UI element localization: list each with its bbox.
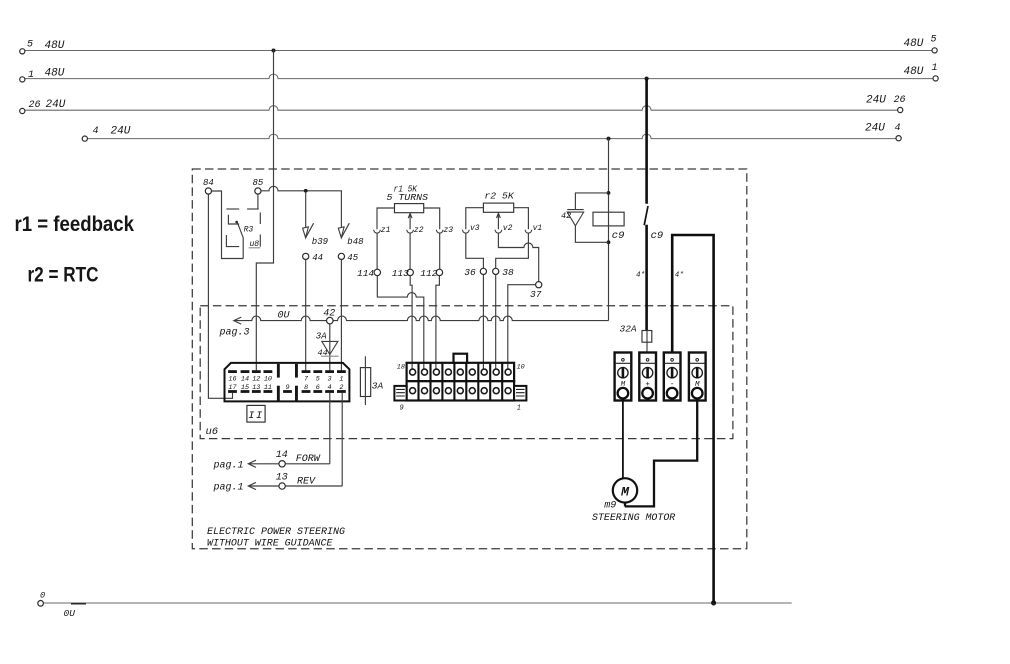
switch b48	[338, 227, 344, 238]
relay u8 bracket bottom-right	[259, 235, 261, 247]
pin 1	[337, 370, 346, 373]
wire z3 to 112	[439, 233, 441, 269]
pin 7	[302, 370, 311, 373]
svg-text:0U: 0U	[64, 608, 76, 619]
svg-text:36: 36	[464, 267, 476, 278]
relay contact R3 inner right bracket	[259, 212, 261, 224]
node junction diode top	[607, 191, 611, 195]
terminal 4 right	[896, 136, 901, 141]
svg-text:b48: b48	[347, 237, 364, 247]
svg-text:STEERING MOTOR: STEERING MOTOR	[592, 513, 675, 524]
terminal 5 left	[20, 49, 25, 54]
svg-text:32A: 32A	[620, 324, 637, 335]
svg-text:5 TURNS: 5 TURNS	[387, 193, 429, 203]
svg-text:R3: R3	[244, 226, 254, 235]
wire 84 down to pin 17	[208, 194, 232, 398]
connector II outline	[225, 363, 350, 402]
wire 37 to connector cell9	[508, 285, 536, 370]
connector X pin circles top	[410, 369, 512, 375]
svg-text:10: 10	[264, 375, 272, 383]
svg-text:c9: c9	[651, 230, 664, 242]
terminal 84	[205, 188, 211, 194]
pin 15	[241, 390, 250, 393]
wire diode branch bottom	[575, 226, 608, 243]
svg-text:M: M	[620, 485, 630, 500]
resistor r1 body	[395, 204, 424, 213]
terminal 45	[338, 253, 344, 259]
svg-text:v1: v1	[533, 224, 543, 233]
pin z2 hook	[407, 230, 414, 233]
diode 42 cathode bar	[567, 209, 584, 211]
svg-text:42: 42	[561, 211, 571, 221]
relay contact R3 bracket top-right	[247, 208, 259, 210]
wire pin 2 to REV	[341, 393, 343, 486]
pin 9	[283, 390, 292, 393]
wire v2 to 37 (hops v1 wire)	[498, 233, 538, 282]
svg-text:WITHOUT WIRE GUIDANCE: WITHOUT WIRE GUIDANCE	[207, 538, 333, 549]
terminal 85	[255, 188, 261, 194]
connector II key top a	[277, 364, 280, 378]
svg-text:24U: 24U	[865, 123, 885, 135]
terminal 38	[493, 268, 499, 274]
svg-text:u6: u6	[206, 426, 219, 438]
svg-text:5: 5	[27, 40, 33, 51]
terminal 112	[436, 269, 442, 275]
resistor r2 wiper arrow	[497, 213, 501, 229]
svg-text:48U: 48U	[904, 66, 924, 78]
svg-text:44: 44	[312, 253, 323, 263]
svg-text:5: 5	[931, 35, 937, 46]
wire 84 to contact arm	[212, 191, 244, 259]
terminal 1 right	[933, 76, 938, 81]
svg-text:r2 = RTC: r2 = RTC	[28, 264, 99, 287]
relay u8 bracket bottom-left	[226, 235, 239, 247]
wire 45 down to pin 1	[340, 260, 342, 372]
svg-text:r2 5K: r2 5K	[484, 192, 514, 202]
pin 13	[252, 390, 261, 393]
svg-text:0: 0	[40, 591, 45, 601]
svg-text:m9: m9	[604, 501, 616, 512]
inner dashed enclosure u6	[200, 306, 733, 439]
connector X pin circles bottom	[410, 388, 512, 394]
svg-text:48U: 48U	[904, 38, 924, 50]
wire 36 to connector cell7	[482, 275, 484, 370]
svg-text:3A: 3A	[316, 332, 327, 342]
svg-text:42: 42	[323, 309, 335, 320]
wire bus 24V line 26	[25, 106, 898, 111]
svg-text:z3: z3	[444, 226, 454, 235]
wire diode branch top	[575, 193, 608, 210]
svg-text:16: 16	[228, 375, 236, 383]
relay R3 moving arm	[237, 222, 244, 259]
wire bus 48V line 5	[25, 50, 932, 52]
pin 5	[313, 370, 322, 373]
diode 42 body	[567, 212, 584, 226]
svg-text:114: 114	[357, 268, 374, 279]
svg-text:pag.1: pag.1	[213, 460, 244, 471]
svg-text:1: 1	[932, 63, 938, 74]
contactor block 1 (M)	[615, 353, 632, 401]
connector X left tab	[394, 386, 406, 401]
contact c9 lower thick	[645, 225, 648, 331]
pin 11	[264, 390, 273, 393]
svg-text:84: 84	[203, 178, 214, 188]
pin 16	[228, 370, 237, 373]
connector X dividers bottom	[419, 381, 503, 400]
relay contact R3 inner left bracket	[228, 215, 239, 224]
switch b39	[305, 193, 307, 228]
wire r2 right to v1	[514, 208, 529, 230]
node junction bus5/vertical	[272, 49, 276, 53]
terminal 1 left	[20, 77, 25, 82]
wire 42 down through 3A fuse triangle to pin 3	[329, 324, 331, 371]
pin 4	[325, 390, 334, 393]
resistor r1 wiper arrow	[408, 213, 412, 229]
wire block4 to motor	[625, 401, 697, 507]
svg-text:14: 14	[241, 375, 249, 383]
relay contact R3 bracket top-left	[226, 208, 239, 210]
pin 10	[264, 370, 273, 373]
connector X notch	[454, 354, 468, 363]
node junction diode bottom	[607, 240, 611, 244]
wire z1 to 114	[376, 233, 378, 269]
svg-text:b39: b39	[312, 237, 329, 247]
svg-text:pag.1: pag.1	[213, 483, 244, 494]
wire thick U to steering motor bus	[672, 235, 713, 603]
connector X dividers top	[419, 363, 503, 381]
svg-text:r1 = feedback: r1 = feedback	[15, 213, 135, 236]
contact c9 blade	[644, 206, 648, 225]
terminal 114	[374, 269, 380, 275]
pin 14	[241, 370, 250, 373]
svg-text:24U: 24U	[111, 126, 131, 138]
svg-text:85: 85	[253, 178, 264, 188]
connector II key bottom a	[277, 386, 280, 401]
arrow 0V to pag.3	[234, 317, 241, 324]
wire emphasized segment on 0V bus	[71, 603, 86, 605]
connector X top row	[407, 363, 514, 381]
terminal 44	[303, 253, 309, 259]
node junction thick leg / 0V bus	[711, 600, 716, 605]
wire v1 to 38	[496, 233, 529, 268]
wire 113 to connector cell1	[410, 276, 412, 370]
pin v2 hook	[495, 230, 502, 233]
wire 85 feed to b39/b48 (hops main vertical)	[261, 186, 341, 227]
svg-text:1: 1	[28, 70, 34, 81]
svg-text:18: 18	[397, 363, 405, 371]
wire bottom 0V bus	[44, 602, 792, 604]
svg-text:10: 10	[517, 363, 525, 371]
svg-text:pag.3: pag.3	[219, 328, 250, 339]
svg-text:c9: c9	[612, 230, 625, 242]
terminal 26 left	[20, 108, 25, 113]
svg-text:1: 1	[339, 375, 343, 383]
node junction bus4/coil feed	[607, 137, 611, 141]
resistor r2 body	[483, 203, 513, 212]
wire 38 to connector cell8	[495, 275, 497, 370]
svg-text:24U: 24U	[866, 95, 886, 107]
svg-text:13: 13	[276, 472, 288, 483]
svg-text:24U: 24U	[46, 99, 66, 111]
pin 2	[337, 390, 346, 393]
wire r1 right to z3	[424, 208, 440, 229]
wire fuse to contactor block 2	[646, 331, 648, 353]
svg-text:0U: 0U	[278, 311, 291, 322]
svg-text:5: 5	[316, 375, 320, 383]
connector X bottom row	[407, 381, 514, 400]
connector II key bottom b	[295, 386, 298, 401]
wire bus 24V line 4	[88, 134, 897, 139]
wire r2 left to v3	[466, 208, 484, 230]
svg-text:48U: 48U	[45, 40, 65, 52]
wire 0V rail (with hops)	[234, 316, 609, 321]
contactor block 3 (-)	[664, 353, 681, 401]
svg-text:45: 45	[347, 253, 358, 263]
relay coil c9 body	[593, 212, 624, 226]
terminal 0 bottom left	[38, 601, 44, 607]
wire block1 to motor	[622, 401, 624, 479]
svg-text:14: 14	[276, 450, 288, 461]
terminal 5 right	[932, 48, 937, 53]
svg-text:ELECTRIC POWER STEERING: ELECTRIC POWER STEERING	[207, 527, 345, 538]
pin 6	[313, 390, 322, 393]
svg-text:26: 26	[894, 95, 906, 106]
wire 112 to connector cell3	[436, 276, 440, 370]
fuse 32A body	[642, 331, 652, 343]
wire 114 to connector cell2 (hops 113 wire)	[377, 276, 424, 370]
svg-text:4*: 4*	[675, 272, 685, 280]
svg-text:II: II	[248, 410, 264, 422]
label II box	[247, 405, 265, 422]
wire r1 left to z1	[377, 208, 395, 229]
wire pin 4 to FORW	[329, 393, 331, 464]
svg-text:112: 112	[420, 268, 437, 279]
svg-text:26: 26	[29, 100, 41, 111]
svg-text:3: 3	[328, 375, 332, 383]
pin v1 hook	[525, 230, 532, 233]
pin 17	[228, 390, 237, 393]
svg-text:12: 12	[252, 375, 260, 383]
pin 12	[252, 370, 261, 373]
terminal 37	[536, 282, 542, 288]
svg-text:37: 37	[530, 289, 542, 300]
svg-text:1: 1	[517, 404, 521, 412]
pin z3 hook	[436, 230, 443, 233]
svg-text:z1: z1	[381, 226, 391, 235]
svg-text:v3: v3	[470, 224, 480, 233]
fuse 3A body (between connectors)	[360, 368, 370, 397]
pin z1 hook	[374, 230, 381, 233]
outer dashed enclosure	[192, 169, 747, 549]
terminal 4 left	[82, 136, 87, 141]
svg-text:3A: 3A	[372, 380, 384, 391]
wire z2 to 113	[409, 233, 411, 269]
motor m9	[613, 478, 637, 502]
svg-text:48U: 48U	[45, 68, 65, 80]
wire 44 down to pin 7	[305, 260, 307, 372]
svg-text:4: 4	[93, 126, 99, 137]
terminal 36	[480, 268, 486, 274]
terminal 42 on 0V rail	[327, 317, 334, 324]
pin v3 hook	[463, 230, 470, 233]
svg-text:4: 4	[895, 123, 901, 134]
terminal 113	[407, 269, 413, 275]
contact c9 thick feed from 48V	[645, 79, 648, 204]
svg-text:z2: z2	[414, 226, 424, 235]
wire 24V drop to coil and 0V	[608, 139, 610, 321]
contactor block 4 (M)	[689, 353, 706, 401]
wire v3 to 36	[466, 233, 484, 268]
node junction bus1/thick vertical	[645, 77, 649, 81]
svg-text:4*: 4*	[636, 272, 646, 280]
wire 85 down into relay contact	[257, 194, 259, 209]
wire main 48V vertical drop	[256, 51, 273, 372]
terminal 26 right	[898, 107, 903, 112]
node junction 85-wire/b39	[304, 189, 308, 193]
contactor block 2 (+)	[639, 353, 656, 401]
svg-text:v2: v2	[503, 224, 513, 233]
connector X right tab	[514, 386, 526, 401]
relay R3 pivot	[235, 221, 238, 224]
svg-text:113: 113	[392, 268, 409, 279]
wire bus 48V line 1	[25, 74, 933, 78]
svg-text:38: 38	[502, 267, 514, 278]
svg-text:9: 9	[400, 405, 404, 413]
connector II key top b	[295, 364, 298, 378]
pin 8	[302, 390, 311, 393]
pin 3	[325, 370, 334, 373]
